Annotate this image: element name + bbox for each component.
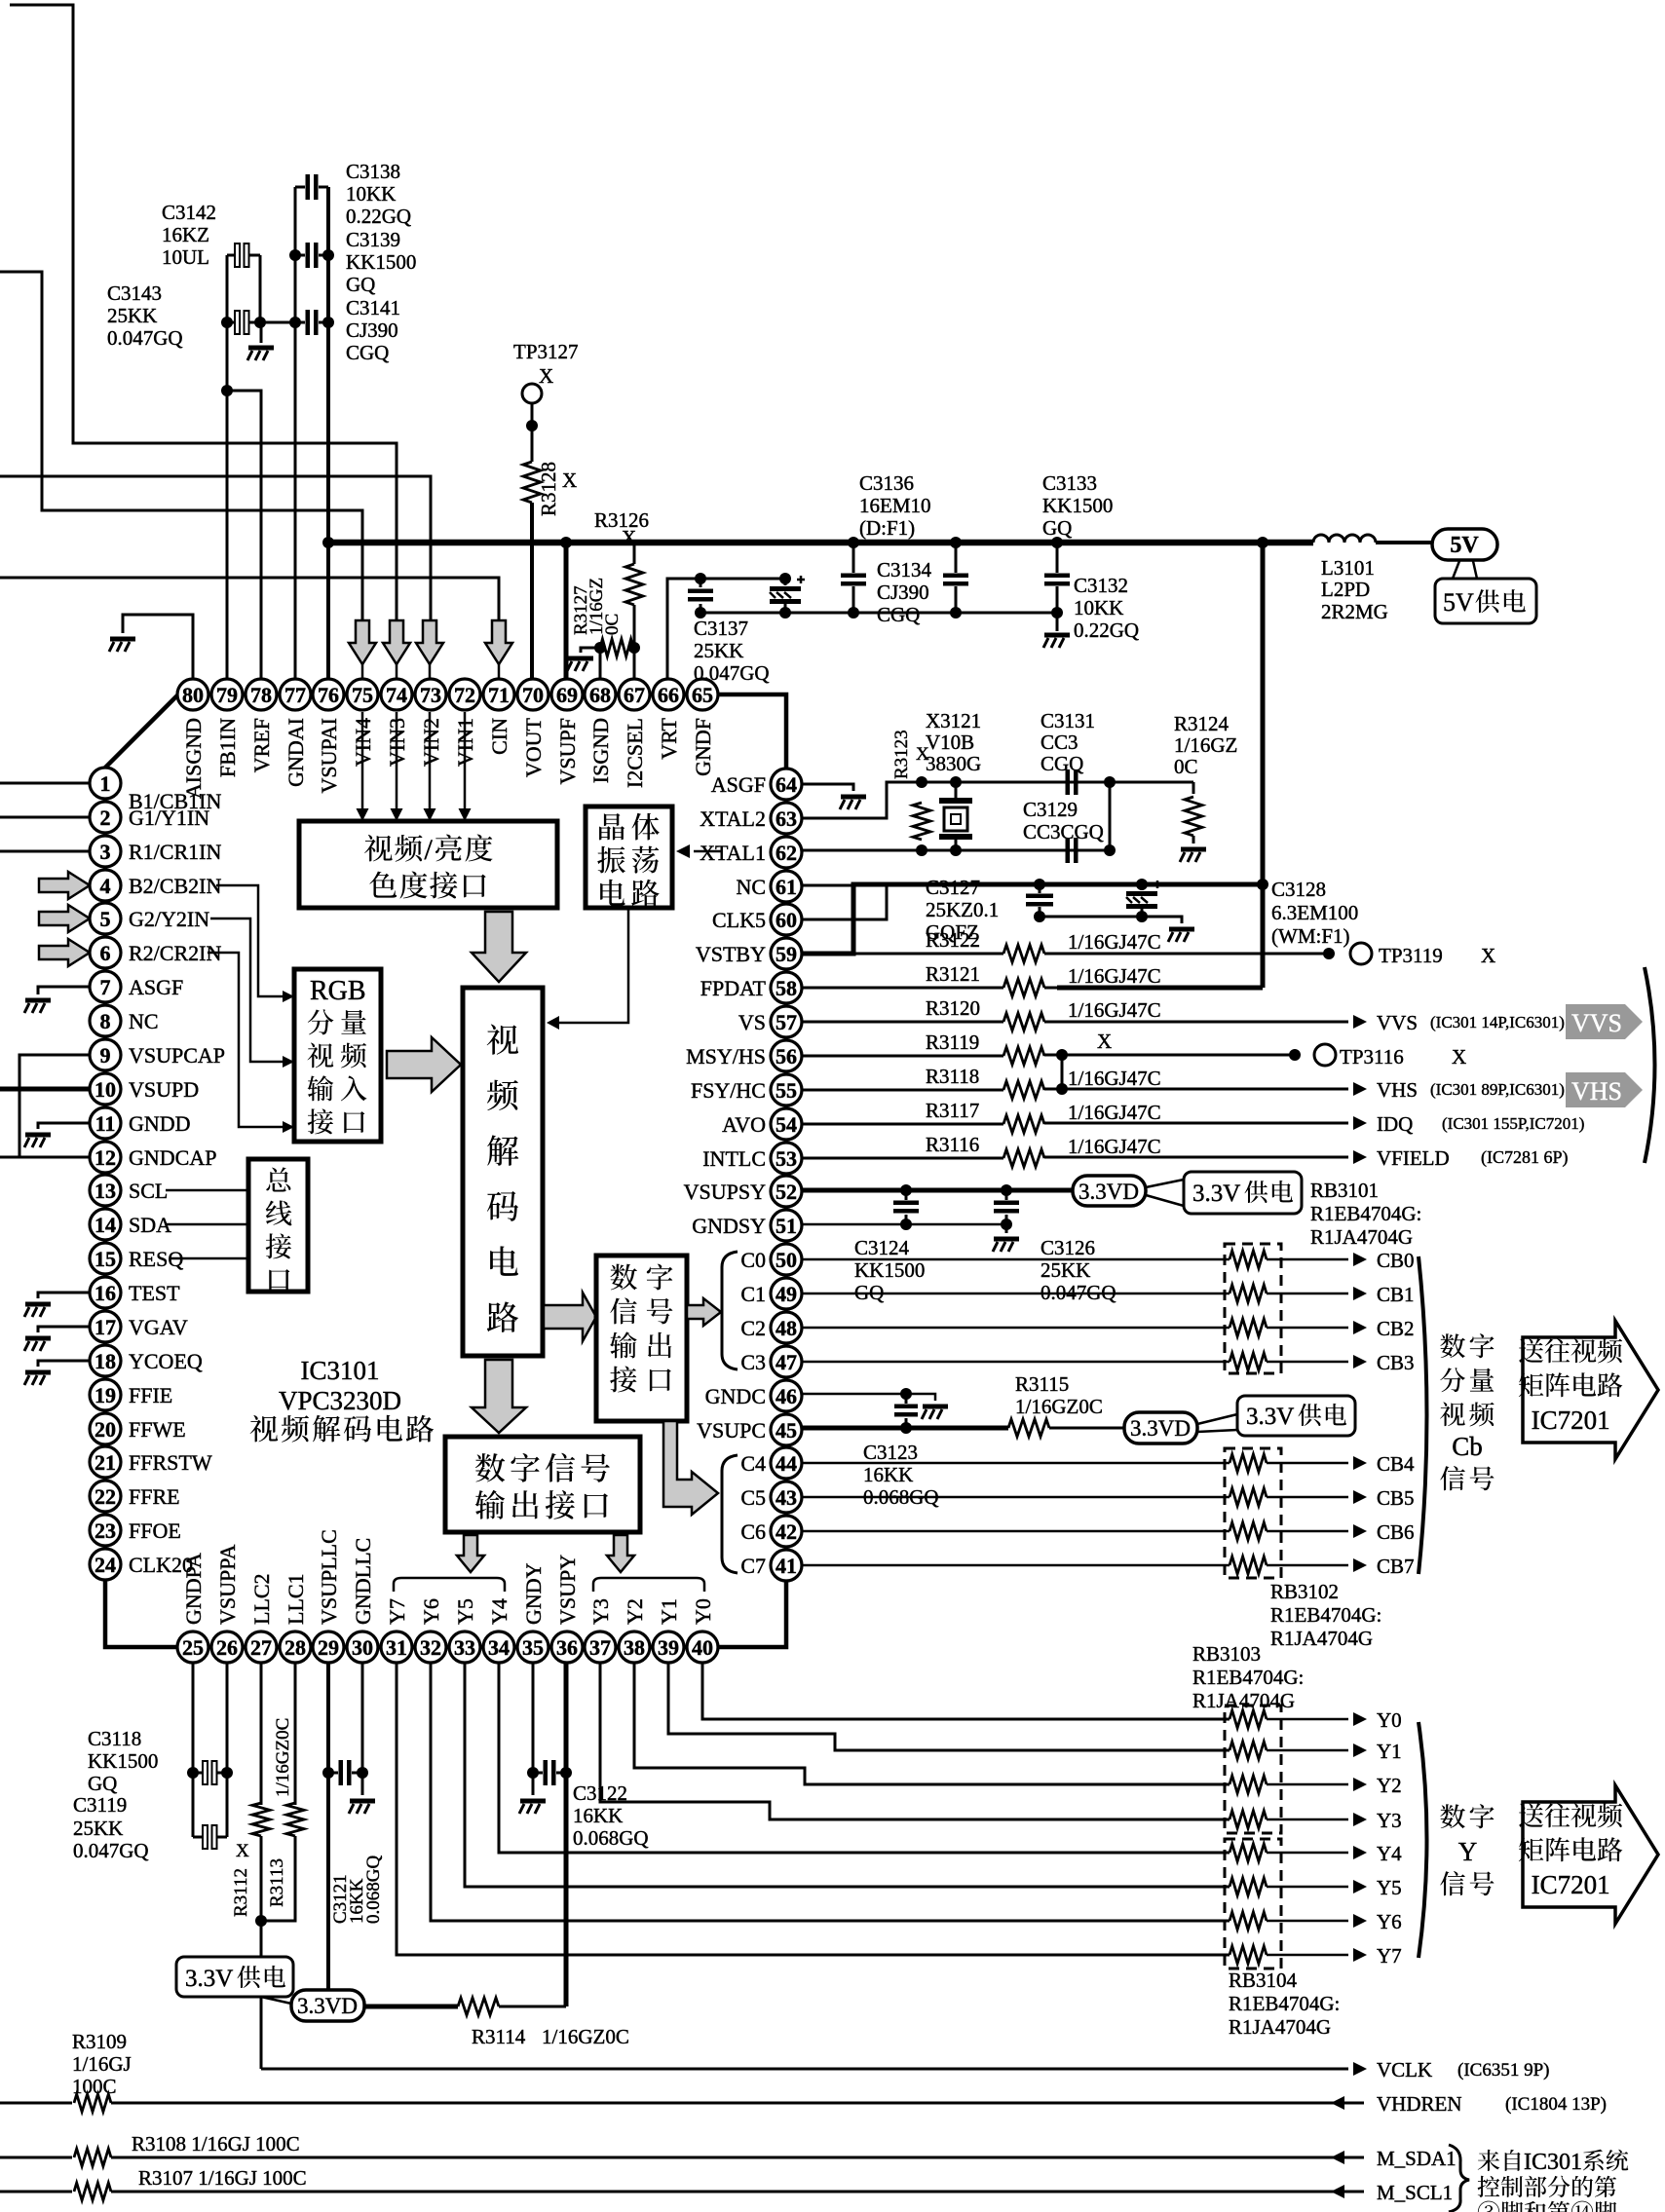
svg-text:R3116: R3116 <box>926 1133 979 1156</box>
capacitor C3124 KK1500 GQ <box>893 1201 919 1214</box>
svg-text:72: 72 <box>454 683 475 707</box>
svg-text:80: 80 <box>182 683 204 707</box>
svg-text:Y7: Y7 <box>1377 1944 1402 1968</box>
svg-text:RB3101: RB3101 <box>1310 1179 1379 1202</box>
svg-text:25KK: 25KK <box>694 639 743 662</box>
svg-text:VCLK: VCLK <box>1377 2058 1432 2081</box>
wire VHDREN row <box>0 2102 72 2105</box>
svg-text:FFIE: FFIE <box>129 1383 172 1407</box>
svg-text:(IC1804 13P): (IC1804 13P) <box>1505 2094 1607 2115</box>
pin 54 AVO <box>771 1108 802 1140</box>
svg-text:R3120: R3120 <box>926 996 980 1020</box>
ground for ASGF <box>840 795 866 810</box>
svg-text:C3129: C3129 <box>1023 798 1078 821</box>
svg-text:Y5: Y5 <box>1377 1876 1402 1899</box>
wire input pin 2 G1/Y1IN <box>0 816 90 819</box>
wire 5V bus <box>328 540 1313 546</box>
svg-text:Y0: Y0 <box>1377 1708 1402 1732</box>
svg-text:GNDF: GNDF <box>691 718 715 776</box>
svg-text:77: 77 <box>284 683 306 707</box>
svg-text:FFOE: FFOE <box>129 1518 181 1543</box>
pin 64 ASGF <box>771 769 802 800</box>
wire ASGF pin 64 to ground <box>802 784 853 791</box>
wire Y3 from pin 37 <box>600 1663 1230 1819</box>
pin 21 FFRSTW <box>90 1446 121 1478</box>
svg-text:53: 53 <box>776 1146 797 1171</box>
pin 3 R1/CR1IN <box>90 836 121 867</box>
bracket over pins Y7-Y4 <box>394 1578 505 1592</box>
wire SDA pin 14 to bus box <box>166 1223 248 1226</box>
svg-text:VSUPC: VSUPC <box>697 1418 766 1443</box>
svg-text:C3134: C3134 <box>877 558 932 581</box>
grey arrow decoder to digital out <box>544 1293 596 1341</box>
resistor R3121 row pin 58 <box>803 987 1003 990</box>
svg-text:X3121: X3121 <box>926 709 981 732</box>
svg-text:0C: 0C <box>1174 755 1198 778</box>
svg-text:54: 54 <box>776 1112 797 1137</box>
pin 18 YCOEQ <box>90 1345 121 1376</box>
svg-text:25KK: 25KK <box>107 304 157 327</box>
grey arrow input pin 6 R2/CR2IN <box>39 939 90 966</box>
svg-text:23: 23 <box>95 1518 116 1543</box>
svg-text:INTLC: INTLC <box>702 1146 766 1171</box>
pin 15 RESQ <box>90 1243 121 1274</box>
svg-text:30: 30 <box>352 1635 373 1660</box>
wire TP3127 to VOUT pin 70 <box>531 403 534 462</box>
pin 37 Y3 <box>585 1631 616 1663</box>
svg-text:VGAV: VGAV <box>129 1315 188 1339</box>
pin 60 CLK5 <box>771 904 802 935</box>
node 3.3VD oval at VSUPSY <box>1073 1176 1146 1206</box>
pin 61 NC <box>771 871 802 902</box>
svg-text:41: 41 <box>776 1554 797 1578</box>
pin 32 Y6 <box>415 1631 446 1663</box>
svg-text:11: 11 <box>95 1111 116 1136</box>
svg-text:LLC1: LLC1 <box>284 1573 308 1625</box>
svg-text:SDA: SDA <box>129 1213 171 1237</box>
svg-text:10KK: 10KK <box>1074 596 1123 619</box>
svg-text:4: 4 <box>100 874 111 898</box>
svg-text:X: X <box>1097 1030 1112 1053</box>
wire VSUPCAP pin 9 to GNDCAP row <box>19 1055 90 1157</box>
pin 70 VOUT <box>517 679 549 710</box>
svg-text:73: 73 <box>420 683 441 707</box>
capacitor C3134 CJ390 CGQ <box>841 574 866 586</box>
capacitor C3131 CC3 CGQ <box>1066 769 1078 795</box>
wire C6 row pin 42 to CB6 <box>803 1530 1230 1533</box>
pin 55 FSY/HC <box>771 1074 802 1106</box>
pin 20 FFWE <box>90 1413 121 1444</box>
ground pin 17 <box>24 1336 51 1352</box>
svg-text:75: 75 <box>352 683 373 707</box>
wire crystal oscillator box to decoder <box>559 908 628 1023</box>
svg-text:1/16GJ47C: 1/16GJ47C <box>1068 998 1161 1022</box>
pin 13 SCL <box>90 1175 121 1206</box>
svg-text:RESQ: RESQ <box>129 1247 183 1271</box>
svg-text:8: 8 <box>100 1009 111 1033</box>
svg-text:KK1500: KK1500 <box>346 250 416 274</box>
svg-text:61: 61 <box>776 875 797 899</box>
pin 44 C4 <box>771 1447 802 1479</box>
capacitor C3137 25KK 0.047GQ <box>688 589 713 602</box>
wire cap bottoms to ground <box>1040 916 1142 919</box>
svg-text:FSY/HC: FSY/HC <box>691 1078 766 1103</box>
label digital Y signal column <box>1440 1804 1465 1828</box>
svg-text:5V: 5V <box>1450 533 1479 558</box>
svg-text:R1EB4704G:: R1EB4704G: <box>1310 1202 1421 1225</box>
pin 69 VSUPF <box>551 679 583 710</box>
wire pin 16 to ground <box>38 1293 90 1298</box>
callout 3.3V power label bottom <box>176 1957 293 1997</box>
pin 57 VS <box>771 1006 802 1037</box>
svg-text:IC7201: IC7201 <box>1532 1870 1610 1899</box>
block RGB component video input box <box>294 969 381 1142</box>
capacitor C3139 KK1500 GQ <box>306 243 319 268</box>
capacitor C3142 16KZ 10UL <box>235 244 249 267</box>
svg-text:0.068GQ: 0.068GQ <box>363 1856 384 1924</box>
resistor R3122 1/16GJ47C and testpoint TP3119 row <box>853 953 1003 956</box>
svg-text:CB7: CB7 <box>1377 1555 1415 1578</box>
wire Y1 from pin 39 <box>668 1663 1230 1750</box>
resistor network row Y7 <box>1230 1946 1267 1964</box>
svg-text:25KK: 25KK <box>73 1817 123 1840</box>
wire VSUPC pin 45 thick row <box>803 1426 1008 1431</box>
pin 36 VSUPY <box>551 1631 583 1663</box>
svg-text:VVS: VVS <box>1571 1009 1622 1037</box>
svg-text:16KK: 16KK <box>863 1463 913 1486</box>
svg-text:Y6: Y6 <box>1377 1910 1402 1933</box>
svg-text:GNDPA: GNDPA <box>181 1553 206 1625</box>
svg-text:C3123: C3123 <box>863 1441 918 1464</box>
svg-text:1/16GZ: 1/16GZ <box>1174 733 1237 757</box>
svg-text:XTAL2: XTAL2 <box>700 806 766 831</box>
wire input pin 3 R1/CR1IN <box>0 850 90 853</box>
pin 28 LLC1 <box>280 1631 311 1663</box>
callout 3.3V power label 2 <box>1197 1414 1237 1424</box>
svg-text:1/16GJ47C: 1/16GJ47C <box>1068 964 1161 988</box>
svg-text:CB2: CB2 <box>1377 1317 1415 1340</box>
svg-text:R1EB4704G:: R1EB4704G: <box>1229 1992 1340 2015</box>
grey arrow input pin 5 G2/Y2IN <box>39 905 90 932</box>
wire GNDD pin 11 to ground <box>38 1123 90 1129</box>
resistor R3126 <box>625 564 643 605</box>
svg-text:R1JA4704G: R1JA4704G <box>1229 2015 1331 2039</box>
resistor R3107 1/16GJ 100C <box>74 2183 111 2200</box>
svg-text:B2/CB2IN: B2/CB2IN <box>129 874 221 898</box>
pin 45 VSUPC <box>771 1414 802 1445</box>
ground for GNDC <box>922 1405 948 1420</box>
tag VVS badge <box>1566 1004 1643 1039</box>
black arrow pin to chroma interface box <box>396 712 398 810</box>
svg-text:(IC301 155P,IC7201): (IC301 155P,IC7201) <box>1442 1114 1584 1133</box>
svg-text:78: 78 <box>250 683 272 707</box>
svg-text:RB3104: RB3104 <box>1229 1968 1298 1992</box>
svg-text:6: 6 <box>100 941 111 965</box>
pin 52 VSUPSY <box>771 1176 802 1207</box>
wire RESQ pin 15 to bus box <box>170 1257 248 1260</box>
block crystal oscillator box <box>586 806 672 908</box>
svg-text:51: 51 <box>776 1214 797 1238</box>
capacitor C3118 KK1500 GQ <box>203 1761 217 1784</box>
pin 53 INTLC <box>771 1143 802 1174</box>
svg-text:LLC2: LLC2 <box>249 1573 274 1625</box>
svg-text:Y4: Y4 <box>487 1598 511 1625</box>
pin 33 Y5 <box>449 1631 480 1663</box>
resistor network RB3102 dashed box <box>1225 1448 1281 1578</box>
svg-text:GQ: GQ <box>346 273 375 296</box>
pin 9 VSUPCAP <box>90 1039 121 1070</box>
svg-text:ASGF: ASGF <box>711 772 766 797</box>
wire C2 row pin 48 to CB2 <box>803 1327 1230 1330</box>
svg-text:GNDD: GNDD <box>129 1111 191 1136</box>
pin 1 B1/CB1IN <box>90 768 121 799</box>
resistor R3123 (X) <box>913 803 930 840</box>
svg-text:1/16GZ0C: 1/16GZ0C <box>1015 1395 1103 1418</box>
capacitor C3128 6.3EM100 electrolytic <box>1126 881 1161 909</box>
capacitor C3126 25KK 0.047GQ <box>994 1201 1019 1214</box>
svg-text:VHDREN: VHDREN <box>1377 2092 1462 2116</box>
grey arrow input pin 4 B2/CB2IN <box>39 872 90 899</box>
capacitor C3138 10KK 0.22GQ <box>306 174 319 200</box>
svg-text:AISGND: AISGND <box>181 718 206 799</box>
svg-text:C3118: C3118 <box>88 1727 141 1750</box>
svg-text:C3119: C3119 <box>73 1793 127 1817</box>
ground for R3124 <box>1180 847 1206 863</box>
pin 14 SDA <box>90 1209 121 1240</box>
resistor R3108 1/16GJ 100C <box>74 2149 111 2166</box>
svg-text:CGQ: CGQ <box>877 603 920 626</box>
wire LLC2 pin 27 down to VCLK <box>260 1663 263 1805</box>
svg-text:65: 65 <box>692 683 713 707</box>
grey arrow down into pin <box>485 620 512 664</box>
svg-text:X: X <box>539 364 553 388</box>
svg-text:3.3VD: 3.3VD <box>1078 1180 1139 1204</box>
wire NC pin 61 stub <box>802 884 853 887</box>
block digital signal output interface box <box>445 1437 640 1532</box>
crystal X3121 V10B 3830G <box>955 782 958 799</box>
pin 29 VSUPLLC <box>313 1631 344 1663</box>
wire VSUPSY pin 52 thick to 3.3VD <box>802 1188 1073 1193</box>
svg-text:TP3116: TP3116 <box>1340 1045 1404 1069</box>
resistor network RB3104 dashed box <box>1225 1839 1281 1968</box>
svg-text:(IC301 89P,IC6301): (IC301 89P,IC6301) <box>1430 1080 1565 1099</box>
wire pin 76 VSUPAI riser (5V) <box>326 187 330 543</box>
svg-text:VSTBY: VSTBY <box>696 942 766 966</box>
grey arrow down into pin <box>383 620 410 664</box>
svg-text:M_SCL1: M_SCL1 <box>1377 2181 1453 2204</box>
svg-text:Y2: Y2 <box>1377 1774 1402 1797</box>
svg-text:3: 3 <box>100 840 111 864</box>
pin 12 GNDCAP <box>90 1142 121 1173</box>
svg-text:VIN3: VIN3 <box>385 718 409 767</box>
callout 3.3V power label <box>1146 1180 1184 1187</box>
wire Y5 from pin 33 <box>465 1663 1230 1887</box>
svg-text:G2/Y2IN: G2/Y2IN <box>129 907 209 931</box>
resistor network row Y6 <box>1230 1912 1267 1930</box>
pin 11 GNDD <box>90 1107 121 1139</box>
wire R2/CR2IN pin 6 route to RGB box <box>208 953 287 1127</box>
pin 49 C1 <box>771 1278 802 1309</box>
pin 43 C5 <box>771 1481 802 1513</box>
svg-text:R3124: R3124 <box>1174 712 1230 735</box>
svg-text:(IC301 14P,IC6301): (IC301 14P,IC6301) <box>1430 1013 1565 1031</box>
svg-text:R3107 1/16GJ 100C: R3107 1/16GJ 100C <box>138 2166 307 2190</box>
svg-text:18: 18 <box>95 1349 116 1373</box>
svg-text:CLK5: CLK5 <box>712 908 766 932</box>
wire Y2 from pin 38 <box>634 1663 1230 1784</box>
pin 46 GNDC <box>771 1380 802 1411</box>
capacitor C3143 25KK 0.047GQ <box>235 311 249 334</box>
callout 5V power label <box>1453 561 1459 579</box>
svg-text:Y6: Y6 <box>419 1598 443 1625</box>
svg-text:62: 62 <box>776 841 797 865</box>
resistor R3115 1/16GZ0C <box>1008 1419 1049 1437</box>
pin 73 VIN2 <box>415 679 446 710</box>
svg-text:Y1: Y1 <box>1377 1740 1402 1763</box>
svg-text:GNDC: GNDC <box>705 1384 766 1408</box>
svg-text:16: 16 <box>95 1281 116 1305</box>
wire MSY/HS row to TP3116 <box>1044 1054 1295 1057</box>
pin 66 VRT <box>653 679 684 710</box>
svg-text:C1: C1 <box>740 1282 766 1306</box>
pin 31 Y7 <box>381 1631 412 1663</box>
svg-text:29: 29 <box>318 1635 339 1660</box>
svg-text:X: X <box>1452 1045 1466 1069</box>
svg-text:25: 25 <box>182 1635 204 1660</box>
svg-text:10UL: 10UL <box>162 245 209 269</box>
wire GNDC pin 46 row <box>803 1393 906 1396</box>
svg-text:0.22GQ: 0.22GQ <box>1074 619 1139 642</box>
IC U3101 VPC3230D body outline <box>105 694 786 1647</box>
capacitor C3119 25KK 0.047GQ <box>203 1825 217 1849</box>
svg-text:16KK: 16KK <box>573 1804 623 1827</box>
svg-text:Y3: Y3 <box>1377 1809 1402 1832</box>
capacitor C3123 16KK 0.068GQ <box>894 1405 918 1417</box>
svg-text:IC7201: IC7201 <box>1532 1406 1610 1435</box>
svg-text:9: 9 <box>100 1043 111 1068</box>
inductor L3101 L2PD 2R2MG <box>1313 535 1376 543</box>
wire VS output row to VVS <box>1044 1021 1348 1024</box>
wire ISGND pin 68 to ground <box>581 648 600 653</box>
svg-text:45: 45 <box>776 1418 797 1443</box>
wire M_SDA1 row <box>0 2156 72 2159</box>
pin 80 AISGND <box>177 679 208 710</box>
svg-text:XTAL1: XTAL1 <box>700 841 766 865</box>
pin 30 GNDLLC <box>347 1631 378 1663</box>
wire pin 18 to ground <box>38 1361 90 1367</box>
pin 77 GNDAI <box>280 679 311 710</box>
svg-text:1/16GZ0C: 1/16GZ0C <box>542 2025 629 2048</box>
svg-text:CB5: CB5 <box>1377 1486 1415 1510</box>
pin 25 GNDPA <box>177 1631 208 1663</box>
capacitor C3120 on LLC supply <box>339 1760 352 1785</box>
pin 76 VSUPAI <box>313 679 344 710</box>
svg-text:/: / <box>425 834 434 866</box>
wire GNDY pin 35 down <box>532 1663 535 1773</box>
svg-text:1/16GJ47C: 1/16GJ47C <box>1068 1101 1161 1124</box>
pin 22 FFRE <box>90 1481 121 1512</box>
grey arrow to Y7-Y4 pins <box>457 1535 484 1572</box>
svg-text:44: 44 <box>776 1451 797 1476</box>
svg-text:X: X <box>1481 944 1495 967</box>
svg-text:C3131: C3131 <box>1041 709 1095 732</box>
pin 48 C2 <box>771 1312 802 1343</box>
svg-text:VSUPAI: VSUPAI <box>317 718 341 793</box>
svg-text:2: 2 <box>100 806 111 830</box>
svg-text:43: 43 <box>776 1485 797 1510</box>
svg-text:25KK: 25KK <box>1041 1258 1090 1282</box>
svg-text:GNDCAP: GNDCAP <box>129 1145 216 1170</box>
svg-text:CC3CGQ: CC3CGQ <box>1023 820 1104 844</box>
svg-text:6.3EM100: 6.3EM100 <box>1271 901 1358 924</box>
svg-text:CB3: CB3 <box>1377 1351 1415 1374</box>
wire B2/CB2IN pin 4 route to RGB box <box>216 885 287 996</box>
wire Y6 from pin 32 <box>431 1663 1230 1921</box>
pin 59 VSTBY <box>771 938 802 969</box>
svg-text:33: 33 <box>454 1635 475 1660</box>
svg-text:34: 34 <box>488 1635 510 1660</box>
resistor R3112 (X) <box>252 1803 270 1836</box>
pin 27 LLC2 <box>246 1631 277 1663</box>
svg-text:FFRE: FFRE <box>129 1484 180 1509</box>
svg-text:C3136: C3136 <box>859 471 914 495</box>
svg-text:0.047GQ: 0.047GQ <box>73 1839 149 1862</box>
svg-text:ISGND: ISGND <box>588 718 613 783</box>
svg-text:FB1IN: FB1IN <box>215 718 240 777</box>
svg-text:SCL: SCL <box>129 1179 168 1203</box>
svg-text:CB4: CB4 <box>1377 1452 1415 1476</box>
resistor R3113 <box>286 1803 304 1836</box>
bracket right of VVS/VHS/IDQ rows <box>1645 967 1655 1163</box>
ground pin 16 <box>24 1302 51 1318</box>
svg-text:R1JA4704G: R1JA4704G <box>1192 1689 1295 1712</box>
grey arrow RGB box to decoder <box>387 1037 461 1092</box>
svg-text:C4: C4 <box>740 1451 766 1476</box>
svg-text:71: 71 <box>488 683 510 707</box>
block video decoder box <box>463 988 543 1356</box>
wire Y0 from pin 40 <box>702 1663 1230 1719</box>
svg-text:R3118: R3118 <box>926 1065 979 1088</box>
svg-text:1: 1 <box>100 771 111 796</box>
svg-text:3.3V: 3.3V <box>185 1966 233 1992</box>
resistor R3120 row pin 57 <box>803 1021 1003 1024</box>
svg-text:1/16GZ0C: 1/16GZ0C <box>273 1718 293 1797</box>
wire C1 row pin 49 to CB1 <box>803 1293 1230 1295</box>
svg-text:Y7: Y7 <box>385 1598 409 1625</box>
wire pin 79 FB1IN riser <box>226 255 229 680</box>
svg-text:27: 27 <box>250 1635 272 1660</box>
svg-text:R2/CR2IN: R2/CR2IN <box>129 941 221 965</box>
pin 71 CIN <box>483 679 514 710</box>
svg-text:VSUPSY: VSUPSY <box>684 1180 766 1204</box>
svg-text:21: 21 <box>95 1450 116 1475</box>
node 3.3VD oval bottom <box>291 1990 364 2021</box>
wire G2/Y2IN pin 5 route to RGB box <box>210 919 287 1062</box>
ground for GNDLLC <box>361 1773 364 1795</box>
svg-text:7: 7 <box>100 975 111 999</box>
svg-text:R3128: R3128 <box>537 462 560 516</box>
pin 62 XTAL1 <box>771 837 802 868</box>
svg-text:VIN4: VIN4 <box>351 718 375 767</box>
resistor R3117 row pin 54 <box>803 1123 1003 1126</box>
wire XTAL1 arrow to crystal oscillator box <box>694 850 721 853</box>
pin 8 NC <box>90 1005 121 1036</box>
node 5V supply oval <box>1432 529 1497 560</box>
svg-text:13: 13 <box>95 1179 116 1203</box>
svg-text:GNDY: GNDY <box>521 1562 546 1625</box>
svg-text:VSUPPA: VSUPPA <box>215 1545 240 1625</box>
svg-text:35: 35 <box>522 1635 544 1660</box>
